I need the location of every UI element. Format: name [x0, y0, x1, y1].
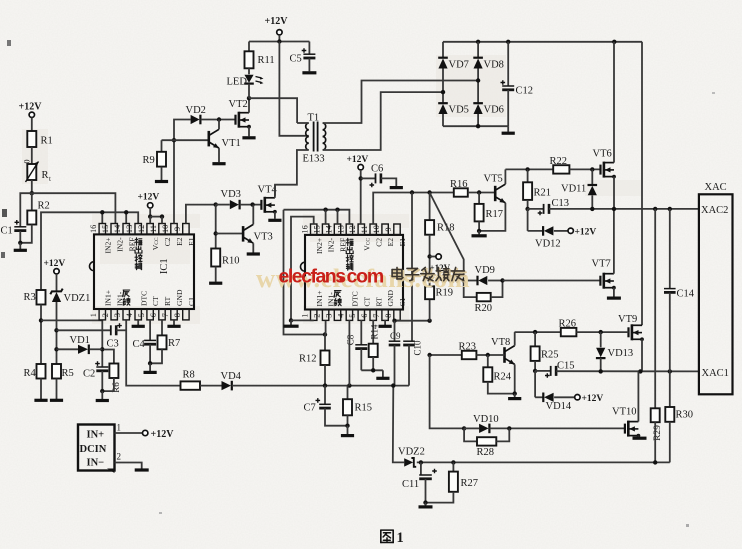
resistor R16	[450, 179, 495, 197]
svg-text:E1: E1	[187, 237, 196, 246]
wire secondary top	[323, 81, 478, 124]
watermark ghost	[256, 263, 470, 293]
caption 图1	[381, 530, 404, 546]
pin 1 DCIN	[115, 423, 175, 441]
svg-text:IN−: IN−	[87, 458, 105, 469]
wire	[31, 147, 33, 164]
wire E2 riser	[172, 120, 191, 224]
resistor R10	[209, 249, 239, 284]
diode VD12	[528, 209, 597, 250]
svg-text:VT9: VT9	[618, 314, 637, 325]
ground VT8	[508, 391, 521, 398]
svg-text:t: t	[49, 175, 51, 183]
bottom rail bridge	[443, 124, 515, 133]
diode VD3	[214, 189, 262, 209]
resistor R26	[515, 319, 629, 337]
power +12V top rail	[249, 16, 309, 44]
svg-text:C2: C2	[374, 238, 383, 247]
svg-text:2: 2	[117, 452, 122, 462]
svg-text:IN2+: IN2+	[103, 237, 112, 253]
svg-text:RT: RT	[163, 296, 172, 306]
svg-text:IN1+: IN1+	[103, 290, 112, 306]
svg-text:R27: R27	[461, 478, 479, 489]
svg-text:6: 6	[360, 314, 369, 318]
transistor VT6	[593, 42, 616, 209]
svg-text:IN+: IN+	[87, 430, 105, 441]
svg-text:+12V: +12V	[582, 394, 604, 404]
svg-text:1: 1	[301, 314, 310, 318]
svg-text:2: 2	[313, 314, 322, 318]
top rail	[443, 40, 642, 44]
svg-text:C8: C8	[346, 334, 356, 345]
svg-text:R9: R9	[143, 155, 155, 166]
resistor R15	[343, 386, 372, 426]
capacitor C8	[346, 320, 368, 370]
resistor R29	[651, 209, 664, 463]
svg-text:R16: R16	[450, 179, 468, 190]
svg-text:3: 3	[324, 314, 333, 318]
connector DCIN	[78, 425, 115, 474]
transistor VT5	[479, 169, 505, 231]
transistor VT4	[258, 185, 282, 221]
svg-text:R3: R3	[24, 292, 36, 303]
svg-text:R8: R8	[183, 370, 195, 381]
svg-text:VD5: VD5	[449, 105, 469, 116]
wire to R12	[284, 210, 326, 335]
svg-text:DTC: DTC	[139, 291, 148, 306]
connector XAC	[699, 182, 733, 394]
power +12V R18	[427, 254, 450, 273]
svg-text:11: 11	[360, 225, 369, 233]
zener diode VDZ2	[398, 447, 670, 467]
transistor VT7	[592, 209, 621, 298]
svg-text:+12V: +12V	[151, 429, 175, 440]
svg-text:C1: C1	[398, 297, 407, 306]
svg-text:CT: CT	[151, 296, 160, 306]
resistor R19	[425, 257, 453, 321]
svg-text:+12V: +12V	[575, 228, 597, 238]
svg-text:R28: R28	[477, 447, 495, 458]
ground C4/R7	[144, 361, 157, 372]
svg-text:11: 11	[149, 225, 158, 233]
transformer T1	[303, 113, 326, 165]
svg-text:RT: RT	[374, 297, 383, 307]
svg-text:C6: C6	[371, 164, 383, 175]
capacitor C6	[361, 164, 403, 188]
node pin16 gnd	[283, 318, 313, 326]
diode VD1	[54, 335, 102, 354]
watermark elecfans.com	[279, 266, 384, 288]
resistor R17	[475, 193, 503, 231]
wire to C1	[20, 193, 32, 226]
svg-text:15: 15	[313, 225, 322, 233]
capacitor C11	[402, 462, 437, 504]
capacitor C14	[664, 209, 695, 372]
wire pin8 rail	[392, 319, 432, 323]
resistor R3	[24, 290, 46, 364]
svg-text:10: 10	[161, 225, 170, 233]
svg-text:T1: T1	[308, 113, 320, 124]
svg-text:VD14: VD14	[546, 401, 572, 412]
svg-text:R20: R20	[475, 303, 493, 314]
resistor R28	[464, 428, 509, 458]
svg-text:R21: R21	[534, 188, 552, 199]
resistor R22	[550, 156, 601, 174]
svg-text:C2: C2	[83, 369, 95, 380]
capacitor C12	[501, 42, 534, 126]
svg-text:IC1: IC1	[159, 258, 170, 274]
svg-text:VD13: VD13	[608, 348, 634, 359]
node XAC1 line	[599, 369, 673, 373]
wire E1 riser	[186, 205, 216, 224]
svg-text:R7: R7	[168, 338, 180, 349]
svg-text:VD6: VD6	[484, 105, 504, 116]
ground C7/R15	[341, 424, 354, 436]
svg-text:VT6: VT6	[593, 149, 612, 160]
svg-text:E133: E133	[303, 154, 325, 165]
svg-text:5: 5	[137, 313, 146, 317]
svg-text:+12V: +12V	[347, 155, 369, 165]
resistor R6	[102, 350, 121, 393]
diode VD5	[438, 90, 469, 126]
svg-text:13: 13	[336, 225, 345, 233]
wire drain to T1	[249, 98, 297, 123]
ground C8/R14	[361, 368, 389, 378]
resistor R27	[426, 462, 479, 502]
svg-text:+12V: +12V	[44, 259, 66, 269]
diode VD4	[221, 371, 410, 390]
capacitor C3	[107, 323, 127, 349]
svg-text:7: 7	[161, 313, 170, 317]
svg-text:XAC2: XAC2	[701, 205, 728, 216]
wire pin1 down	[100, 321, 104, 368]
resistor R20	[464, 281, 503, 315]
svg-text:6: 6	[149, 313, 158, 317]
power +12V IC2	[347, 155, 369, 224]
wire center tap	[279, 42, 308, 136]
wire rail riser	[393, 386, 404, 463]
ground	[14, 241, 27, 251]
svg-text:VT8: VT8	[491, 337, 510, 348]
svg-text:C13: C13	[552, 198, 570, 209]
svg-text:VD7: VD7	[449, 60, 469, 71]
op-amp IC1 (TL494 PWM)	[89, 224, 196, 320]
svg-text:9: 9	[173, 227, 182, 231]
svg-text:E2: E2	[175, 237, 184, 246]
resistor R14	[369, 320, 380, 370]
diode VD6	[473, 78, 504, 126]
svg-text:VD9: VD9	[475, 265, 495, 276]
resistor R4	[24, 364, 48, 400]
svg-text:VD3: VD3	[221, 189, 241, 200]
transistor VT9	[618, 314, 644, 371]
svg-text:R23: R23	[459, 341, 477, 352]
resistor R23	[427, 341, 504, 359]
pin 2 DCIN	[115, 452, 149, 471]
svg-text:R17: R17	[486, 209, 504, 220]
power +12V terminal (VDZ1)	[44, 259, 66, 291]
resistor R2	[20, 193, 49, 243]
svg-text:+12V: +12V	[19, 102, 43, 113]
diode VD14	[535, 371, 603, 412]
svg-text:R26: R26	[559, 319, 577, 330]
ground	[96, 389, 109, 401]
wire pin4 riser IC2	[348, 320, 350, 386]
potentiometer Rt	[23, 160, 52, 184]
capacitor C4	[133, 320, 157, 363]
svg-text:R1: R1	[41, 136, 53, 147]
wire pins 15-14-13	[284, 208, 350, 224]
capacitor C15	[533, 361, 699, 378]
capacitor C10	[403, 193, 422, 386]
svg-text:R15: R15	[355, 403, 373, 414]
wire pin3 riser	[126, 320, 180, 386]
svg-text:14: 14	[324, 224, 333, 233]
resistor R25	[531, 332, 559, 371]
svg-text:1: 1	[397, 530, 404, 546]
resistor R30	[665, 371, 693, 462]
svg-text:DTC: DTC	[351, 291, 360, 306]
svg-text:+12V: +12V	[138, 192, 160, 202]
svg-text:10: 10	[372, 225, 381, 233]
svg-text:C4: C4	[133, 339, 146, 350]
wire rail to VT9	[641, 42, 643, 326]
svg-text:R12: R12	[299, 354, 317, 365]
svg-text:R25: R25	[541, 350, 559, 361]
svg-text:7: 7	[372, 314, 381, 318]
svg-text:C7: C7	[304, 403, 316, 414]
svg-text:C1: C1	[187, 297, 196, 306]
svg-text:LED: LED	[227, 77, 248, 88]
svg-text:C10: C10	[413, 340, 423, 356]
svg-text:16: 16	[89, 225, 98, 233]
resistor R8	[181, 370, 222, 390]
wire to pin15	[32, 193, 116, 223]
transistor VT1	[209, 120, 241, 164]
capacitor C2	[83, 361, 108, 391]
svg-text:C2: C2	[163, 237, 172, 246]
zener diode VDZ1	[50, 289, 90, 364]
svg-text:1: 1	[89, 313, 98, 317]
svg-text:13: 13	[125, 225, 134, 233]
svg-text:E2: E2	[386, 238, 395, 247]
transistor VT3	[243, 205, 273, 254]
ground pin7 IC1	[167, 320, 180, 326]
capacitor C1	[1, 220, 27, 243]
power +12V IC1	[138, 192, 165, 223]
wire diagonal	[430, 193, 464, 281]
wire pin16 line	[291, 217, 314, 321]
svg-text:R10: R10	[222, 256, 240, 267]
svg-text:1: 1	[117, 423, 122, 433]
svg-text:C1: C1	[1, 226, 13, 237]
svg-text:R2: R2	[38, 201, 50, 212]
svg-text:VT2: VT2	[229, 99, 248, 110]
svg-text:VD8: VD8	[484, 60, 504, 71]
diode VD11	[561, 169, 597, 209]
svg-text:3: 3	[113, 313, 122, 317]
svg-text:VT5: VT5	[484, 174, 503, 185]
svg-text:XAC1: XAC1	[702, 368, 729, 379]
svg-text:VD11: VD11	[561, 184, 586, 195]
svg-text:C11: C11	[402, 479, 419, 490]
svg-text:C14: C14	[677, 289, 695, 300]
diode VD13	[596, 332, 633, 371]
wire VT7 gate	[500, 278, 600, 282]
wire to C3	[57, 329, 111, 331]
transistor VT2	[229, 98, 256, 138]
svg-text:elecfans: elecfans	[279, 266, 347, 288]
svg-text:VT3: VT3	[254, 232, 273, 243]
diode VD9	[462, 265, 503, 285]
svg-text:0: 0	[23, 160, 32, 164]
resistor R1	[27, 131, 52, 147]
watermark 电子发烧友	[392, 267, 466, 282]
capacitor C7	[304, 386, 348, 426]
svg-text:C15: C15	[557, 361, 575, 372]
svg-text:VDZ1: VDZ1	[64, 293, 91, 304]
op-amp IC2 (TL494 PWM)	[301, 224, 408, 320]
svg-text:R22: R22	[550, 156, 568, 167]
ground pin7 IC2	[379, 320, 392, 326]
resistor R5	[50, 364, 74, 400]
ground C11	[419, 500, 433, 507]
wire VT3 base	[214, 205, 244, 249]
svg-text:VDZ2: VDZ2	[398, 447, 425, 458]
node R3-pin1 wire	[39, 318, 103, 322]
node XAC2 line	[525, 207, 543, 211]
svg-text:com: com	[347, 266, 384, 288]
svg-text:CT: CT	[362, 296, 371, 306]
svg-text:14: 14	[113, 224, 122, 233]
transistor VT10	[612, 371, 647, 438]
wire VD10 line	[430, 355, 465, 428]
resistor R7	[150, 320, 180, 363]
svg-text:VD10: VD10	[473, 414, 499, 425]
wire B pins16-14-13	[41, 210, 138, 290]
svg-text:XAC: XAC	[705, 182, 727, 193]
wire pin11 line	[373, 190, 454, 224]
svg-text:R11: R11	[258, 55, 275, 66]
svg-text:VT1: VT1	[222, 138, 241, 149]
node VT2 drain	[247, 96, 251, 100]
svg-text:C9: C9	[390, 331, 401, 341]
capacitor C5	[290, 42, 317, 73]
svg-text:2: 2	[101, 313, 110, 317]
wire primary top	[297, 122, 309, 124]
node A junction	[30, 191, 34, 195]
svg-text:8: 8	[384, 314, 393, 318]
svg-text:12: 12	[348, 225, 357, 233]
wire R22 line	[505, 167, 553, 171]
transistor VT8	[491, 332, 515, 394]
svg-text:R5: R5	[62, 368, 74, 379]
svg-text:VD1: VD1	[70, 335, 90, 346]
svg-text:C3: C3	[107, 339, 119, 350]
svg-text:R14: R14	[370, 324, 380, 340]
ground VT5	[472, 229, 487, 236]
ground pin4 IC1	[132, 320, 145, 326]
capacitor C9	[389, 321, 401, 386]
diode VD7	[438, 42, 469, 104]
svg-text:8: 8	[173, 313, 182, 317]
resistor R12	[299, 321, 330, 386]
wire primary bottom	[275, 150, 309, 196]
svg-text:16: 16	[301, 225, 310, 233]
diode VD2	[186, 105, 236, 124]
svg-text:C12: C12	[516, 86, 534, 97]
resistor R18	[425, 193, 454, 257]
LED	[227, 42, 275, 99]
diode VD10	[462, 414, 625, 433]
capacitor C13	[538, 198, 699, 215]
svg-text:VD12: VD12	[535, 239, 561, 250]
svg-text:C5: C5	[290, 54, 302, 65]
node VDZ1-C3	[54, 328, 58, 332]
svg-text:+12V: +12V	[265, 16, 289, 27]
svg-text:R24: R24	[494, 372, 512, 383]
wire	[31, 180, 33, 193]
svg-text:R: R	[42, 170, 49, 181]
svg-text:VT10: VT10	[612, 407, 637, 418]
resistor R24	[483, 355, 514, 394]
power +12V terminal (left)	[19, 102, 43, 132]
svg-text:5: 5	[348, 314, 357, 318]
diode VD8	[473, 42, 504, 104]
svg-text:VD2: VD2	[186, 105, 206, 116]
svg-text:GND: GND	[175, 289, 184, 306]
wire secondary bottom	[323, 92, 443, 150]
svg-text:IN2-: IN2-	[115, 237, 124, 252]
svg-text:E1: E1	[398, 238, 407, 247]
svg-text:9: 9	[384, 227, 393, 231]
svg-text:R4: R4	[24, 368, 37, 379]
svg-text:15: 15	[101, 225, 110, 233]
svg-text:IN2-: IN2-	[327, 237, 336, 252]
svg-text:DCIN: DCIN	[80, 444, 107, 455]
svg-text:R30: R30	[676, 410, 694, 421]
resistor R21	[523, 169, 551, 209]
svg-text:IN2+: IN2+	[315, 238, 324, 254]
resistor R9	[143, 140, 209, 181]
svg-text:VT7: VT7	[592, 259, 611, 270]
svg-text:VD4: VD4	[221, 371, 242, 382]
svg-text:12: 12	[137, 225, 146, 233]
